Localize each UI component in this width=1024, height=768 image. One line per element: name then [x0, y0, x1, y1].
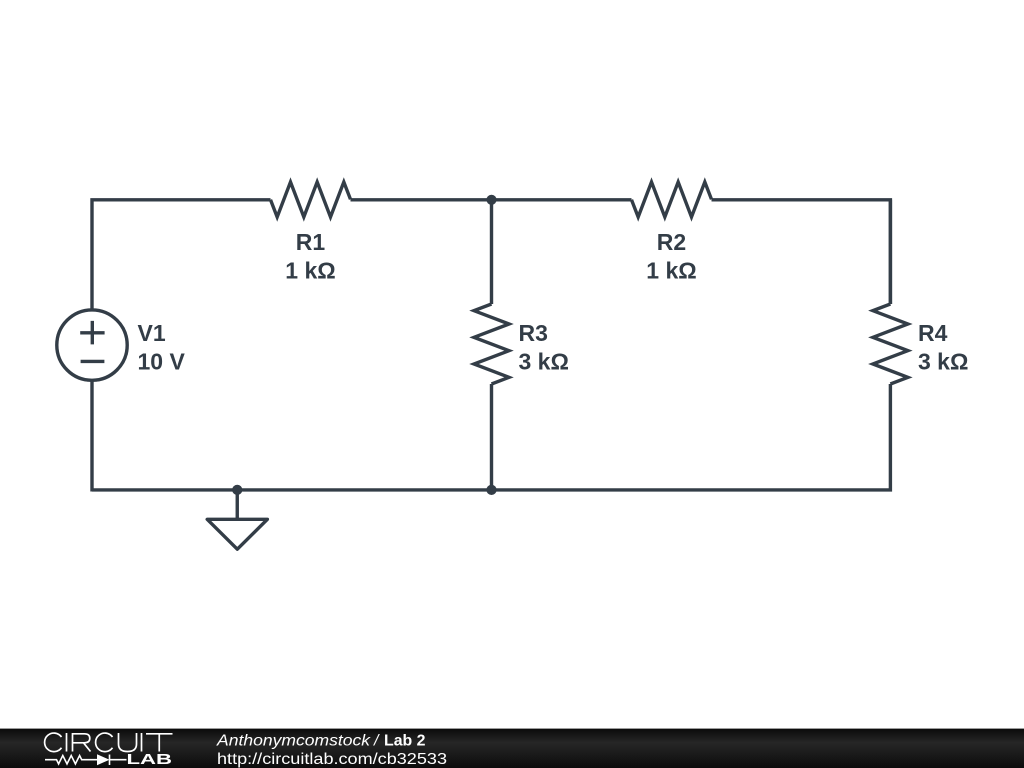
svg-text:1 kΩ: 1 kΩ	[285, 258, 335, 284]
wire node A down to R3	[490, 200, 493, 304]
CircuitLab logo: CIRCUIT wordmark	[45, 733, 173, 752]
CircuitLab logo: diode triangle	[97, 754, 110, 765]
wire V1 bottom to bottom-left corner	[92, 380, 237, 491]
resistor R1	[271, 182, 351, 217]
svg-text:3 kΩ: 3 kΩ	[519, 349, 569, 375]
svg-text:R2: R2	[657, 229, 686, 255]
svg-text:http://circuitlab.com/cb32533: http://circuitlab.com/cb32533	[217, 751, 447, 768]
svg-text:1 kΩ: 1 kΩ	[646, 258, 696, 284]
CircuitLab logo: resistor-diode strip	[45, 755, 127, 766]
footer bar	[0, 729, 1024, 768]
svg-text:Lab 2: Lab 2	[384, 733, 426, 750]
resistor R2	[632, 182, 712, 217]
junction ground node	[232, 485, 242, 495]
resistor R3	[474, 304, 509, 384]
junction node B	[486, 485, 496, 495]
junction node A	[486, 195, 496, 205]
wire ground node to node B	[237, 488, 491, 491]
svg-text:10 V: 10 V	[138, 349, 186, 375]
svg-text:R1: R1	[296, 229, 326, 255]
wire R3 to bottom node B	[490, 384, 493, 490]
wire node B to bottom-right corner	[492, 384, 893, 490]
svg-text:3 kΩ: 3 kΩ	[918, 349, 968, 375]
svg-text:Anthonymcomstock: Anthonymcomstock	[216, 733, 371, 750]
wire R2 to top-right corner	[712, 198, 891, 304]
ground stub wire	[236, 490, 239, 519]
svg-text:R3: R3	[519, 320, 548, 346]
wire top-right to R4	[889, 200, 892, 304]
wire top-left (V1 to R1)	[92, 198, 271, 310]
svg-text:V1: V1	[138, 320, 166, 346]
svg-text:LAB: LAB	[127, 751, 173, 768]
wire R1 to node A	[351, 198, 492, 201]
ground symbol	[207, 519, 267, 549]
svg-text:R4: R4	[918, 320, 948, 346]
voltage source V1	[57, 310, 127, 380]
wire node A to R2	[492, 198, 632, 201]
resistor R4	[873, 304, 908, 384]
